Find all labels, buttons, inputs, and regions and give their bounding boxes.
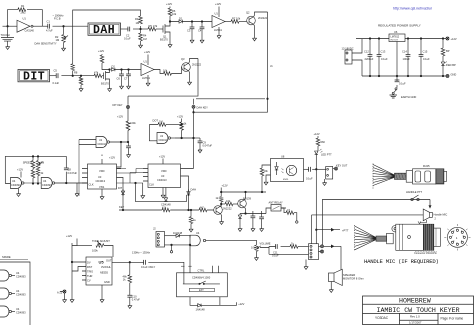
- svg-text:Handle MIC: Handle MIC: [434, 213, 448, 217]
- ground under pin: [76, 183, 78, 192]
- svg-text:DAH KEY: DAH KEY: [197, 106, 209, 110]
- svg-text:RJ45: RJ45: [423, 164, 430, 168]
- svg-text:1N4148: 1N4148: [173, 231, 183, 235]
- resistor pull-down: [190, 210, 192, 217]
- transistor Q5: [214, 206, 223, 215]
- svg-text:CLK: CLK: [149, 183, 154, 187]
- svg-text:OUT: OUT: [106, 259, 112, 263]
- svg-text:BS170: BS170: [101, 82, 109, 86]
- transistor Q3 mosfet: [104, 70, 110, 87]
- svg-text:KEY OUT: KEY OUT: [336, 164, 348, 168]
- svg-text:VOLUME: VOLUME: [260, 242, 271, 246]
- svg-text:R4: R4: [143, 34, 147, 38]
- svg-text:+12V: +12V: [66, 234, 72, 238]
- capacitor C5: [56, 73, 58, 78]
- resistor to speed line: [71, 64, 75, 71]
- svg-text:+12V: +12V: [215, 2, 221, 6]
- svg-text:130Hz ~ 135Hz: 130Hz ~ 135Hz: [132, 250, 151, 254]
- svg-text:THR: THR: [87, 274, 92, 278]
- gate U2a: [96, 137, 110, 148]
- svg-text:1M: 1M: [143, 37, 147, 41]
- svg-text:CTRL: CTRL: [198, 269, 205, 273]
- svg-text:1/17/2007: 1/17/2007: [409, 320, 422, 324]
- svg-text:100k: 100k: [130, 121, 136, 125]
- lower path: [269, 248, 309, 255]
- dashed cable edge: [354, 225, 356, 251]
- resistor R5 series: [148, 27, 156, 31]
- ground: [79, 87, 83, 92]
- svg-text:DIT: DIT: [118, 186, 123, 190]
- svg-text:BS170: BS170: [160, 38, 168, 42]
- output wire: [123, 262, 184, 273]
- zener: [239, 214, 241, 216]
- svg-text:10k: 10k: [264, 169, 269, 173]
- diode D2: [112, 68, 115, 71]
- capacitor DAH debounce: [199, 138, 201, 141]
- cable body: [376, 236, 387, 241]
- svg-text:REGULATED POWER SUPPLY: REGULATED POWER SUPPLY: [378, 24, 421, 28]
- svg-text:+12V: +12V: [159, 155, 165, 159]
- resistor down: [129, 262, 131, 264]
- wire from DIT box: [50, 75, 57, 77]
- svg-text:+12V: +12V: [238, 302, 244, 306]
- svg-text:C6: C6: [117, 77, 121, 81]
- svg-text:Rev 1.0: Rev 1.0: [410, 314, 420, 318]
- svg-text:R1: R1: [21, 4, 25, 8]
- svg-text:+12V: +12V: [222, 184, 228, 188]
- svg-text:0.1uF: 0.1uF: [124, 37, 131, 41]
- ground: [305, 260, 307, 265]
- svg-text:2200uF: 2200uF: [365, 57, 374, 61]
- switch HANDLE PTT: [411, 198, 413, 200]
- wire step to DIT key: [128, 59, 198, 105]
- svg-text:+12V: +12V: [314, 132, 320, 136]
- wire U2a inputs: [79, 140, 96, 145]
- svg-text:100k: 100k: [92, 249, 98, 253]
- wire output: [33, 25, 48, 27]
- CLK wire from U4 to U3b: [123, 173, 143, 184]
- knurled ring: [423, 224, 434, 250]
- svg-text:10k: 10k: [172, 12, 177, 16]
- diode DIT out: [122, 189, 124, 191]
- resistor DOT: [149, 125, 158, 141]
- svg-text:2M2: 2M2: [21, 11, 27, 15]
- svg-text:1M: 1M: [41, 161, 45, 165]
- jack terminals: [321, 245, 324, 248]
- transistor Q4: [182, 63, 191, 72]
- svg-text:A 12: A 12: [57, 291, 63, 295]
- wire: [182, 21, 212, 23]
- capacitor C2: [128, 27, 130, 32]
- svg-text:2N2222: 2N2222: [192, 63, 202, 67]
- resistor out: [281, 208, 286, 213]
- svg-text:R8: R8: [74, 71, 78, 75]
- ground: [6, 45, 10, 50]
- svg-text:C14: C14: [402, 50, 407, 54]
- svg-text:CLK: CLK: [89, 183, 94, 187]
- wiper wire: [260, 247, 276, 248]
- svg-text:LM741: LM741: [142, 76, 150, 80]
- capacitor: [275, 244, 277, 249]
- svg-text:Q2: Q2: [246, 11, 250, 15]
- svg-text:EARTH GND: EARTH GND: [401, 95, 416, 99]
- IC U3b CD4013: [148, 164, 181, 188]
- capacitor C4: [201, 22, 203, 28]
- svg-text:+12V: +12V: [109, 156, 115, 160]
- mic horn: [423, 209, 432, 221]
- svg-text:10k: 10k: [251, 246, 256, 250]
- svg-text:CD4093: CD4093: [16, 293, 26, 297]
- svg-text:1N4148: 1N4148: [196, 307, 206, 311]
- wire feedback loop: [8, 10, 43, 27]
- svg-text:GND: GND: [104, 280, 110, 284]
- svg-text:U1: U1: [144, 60, 148, 64]
- ground: [62, 46, 66, 51]
- svg-text:U8: U8: [281, 154, 285, 158]
- gate U2b: [157, 133, 171, 144]
- svg-text:BP: BP: [446, 49, 450, 53]
- transistor Q2: [247, 16, 256, 25]
- wire to speaker: [324, 246, 342, 269]
- feed wire long from top: [73, 10, 141, 76]
- nose: [434, 228, 441, 246]
- dotted detail under barrel: [415, 250, 437, 252]
- wire: [133, 28, 148, 30]
- resistor opto input: [260, 168, 264, 176]
- resistor: [290, 245, 298, 249]
- svg-text:Q3: Q3: [181, 57, 185, 61]
- svg-text:2N2222: 2N2222: [223, 206, 233, 210]
- svg-text:Page # or name: Page # or name: [441, 316, 464, 320]
- relay contact box: [271, 205, 281, 212]
- svg-text:0.1uF ONLY: 0.1uF ONLY: [141, 265, 155, 269]
- svg-text:VDD: VDD: [99, 169, 105, 173]
- svg-text:12-18VDC: 12-18VDC: [342, 47, 354, 51]
- svg-text:+12V: +12V: [177, 115, 183, 119]
- pins top: [213, 266, 219, 273]
- wire U3a to U3b: [117, 169, 144, 184]
- op-amp U2b: [141, 64, 154, 76]
- svg-text:100uF: 100uF: [403, 57, 411, 61]
- svg-text:VDD: VDD: [161, 169, 167, 173]
- plug body: [413, 169, 436, 184]
- speaker: [329, 273, 335, 282]
- svg-text:C12: C12: [364, 50, 369, 54]
- bottom rail: [362, 75, 446, 77]
- trimmer DAH sensitivity: [63, 26, 65, 34]
- diode 1N4148: [198, 304, 201, 307]
- +12V rail local: [221, 188, 266, 197]
- svg-text:C1: C1: [47, 20, 51, 24]
- wire loop: [5, 156, 66, 183]
- svg-text:LED PTT: LED PTT: [321, 153, 332, 157]
- svg-text:C8: C8: [68, 168, 72, 172]
- earth branch: [396, 76, 398, 81]
- svg-text:NE555: NE555: [100, 271, 108, 275]
- svg-text:2N2222: 2N2222: [258, 16, 268, 20]
- svg-text:DAH SENSITIVITY: DAH SENSITIVITY: [35, 41, 57, 45]
- svg-text:+12V: +12V: [117, 115, 123, 119]
- EXT box: [189, 288, 214, 291]
- op-amp U1b comparator: [212, 16, 225, 28]
- cap 3: [407, 39, 409, 55]
- resistor collector Q5: [219, 197, 223, 202]
- ground pin: [101, 285, 103, 298]
- pot VOLUME: [255, 245, 261, 251]
- svg-text:4.7uF: 4.7uF: [46, 29, 53, 33]
- svg-text:KEY: KEY: [119, 205, 124, 209]
- diode DAH out: [188, 190, 190, 192]
- svg-text:0.047uF: 0.047uF: [203, 144, 213, 148]
- input wires: [262, 165, 271, 168]
- wire pullup DIT: [127, 109, 129, 122]
- svg-text:560: 560: [321, 140, 326, 144]
- svg-text:CD4013: CD4013: [157, 178, 167, 182]
- ground: [168, 43, 172, 48]
- svg-text:HANDLE MIC (IF REQUIRED): HANDLE MIC (IF REQUIRED): [364, 258, 439, 265]
- ground rail: [70, 298, 74, 303]
- transistor Q1 mosfet: [163, 20, 170, 43]
- ferrule: [406, 171, 412, 183]
- terminal DIT KEY: [127, 106, 130, 109]
- contact block: [436, 169, 444, 184]
- svg-text:1M: 1M: [136, 21, 140, 25]
- svg-text:DV: DV: [87, 261, 91, 265]
- svg-text:U4: U4: [16, 271, 20, 275]
- +12V rail: [72, 239, 77, 294]
- label DAH: [88, 23, 121, 37]
- gate U4e: [0, 306, 9, 317]
- gate U4f: [190, 235, 200, 246]
- screw: [392, 226, 398, 232]
- svg-text:47k: 47k: [153, 24, 158, 28]
- svg-text:R7 10k: R7 10k: [232, 17, 241, 21]
- box SPARE: [0, 262, 30, 325]
- wire lower pin: [165, 244, 191, 245]
- bottom wires: [190, 297, 198, 306]
- wire from DAH box: [121, 28, 129, 30]
- wire long vertical to DAH key: [194, 12, 268, 112]
- svg-text:U4: U4: [16, 289, 20, 293]
- wire PTT loop: [322, 200, 430, 245]
- svg-text:0.1uF: 0.1uF: [381, 57, 388, 61]
- svg-text:http://www.qsl.net/va3iul: http://www.qsl.net/va3iul: [393, 7, 432, 11]
- svg-text:R3: R3: [135, 17, 139, 21]
- svg-text:DAH: DAH: [191, 188, 197, 192]
- svg-text:CD4093: CD4093: [16, 311, 26, 315]
- dashed cable edge: [372, 164, 374, 189]
- ferrule: [387, 233, 394, 244]
- resistor R3 1M: [139, 16, 143, 24]
- wire to DAH box: [53, 25, 89, 27]
- ground: [253, 36, 257, 41]
- svg-text:CD4093: CD4093: [16, 275, 26, 279]
- capacitor pair: [144, 260, 146, 265]
- capacitor C6: [121, 70, 123, 75]
- svg-text:D1: D1: [179, 17, 183, 21]
- IC U3a CD4013: [88, 164, 117, 189]
- wire horn to connector: [420, 220, 427, 223]
- optocoupler U8: [271, 159, 304, 182]
- svg-text:U3: U3: [161, 174, 165, 178]
- pot TONE ADJUST: [96, 241, 104, 247]
- terminal DAH KEY: [192, 105, 195, 108]
- ground: [18, 189, 20, 192]
- jack KEY OUT: [326, 167, 333, 180]
- svg-text:RST: RST: [87, 265, 93, 269]
- svg-text:HANDLE PTT: HANDLE PTT: [406, 190, 423, 194]
- svg-text:CV: CV: [87, 279, 91, 283]
- gate U4b: [41, 178, 55, 189]
- terminal A: [63, 290, 66, 293]
- svg-text:CD4011: CD4011: [159, 139, 168, 142]
- wire U5 out into box: [183, 273, 185, 284]
- wire up to U2a: [78, 140, 80, 197]
- output capacitor: [304, 168, 310, 170]
- gate U4a: [11, 178, 25, 189]
- svg-text:0.1uF: 0.1uF: [53, 81, 60, 85]
- svg-text:U4: U4: [16, 307, 20, 311]
- svg-text:10k: 10k: [163, 69, 168, 73]
- svg-text:SPEED: SPEED: [23, 161, 32, 165]
- svg-text:LED BP: LED BP: [447, 63, 456, 67]
- svg-text:LM7812: LM7812: [391, 36, 400, 39]
- regulator U6: [356, 38, 446, 40]
- +12V pullup resistor: [169, 7, 171, 9]
- svg-text:1M: 1M: [159, 120, 163, 124]
- wire +PTT stub: [316, 229, 340, 231]
- KEY bus wire: [119, 209, 214, 211]
- resistor R6: [231, 20, 239, 24]
- +12V stub: [317, 136, 319, 138]
- +12V pullup: [101, 54, 103, 55]
- ground: [108, 87, 112, 92]
- wire MIC loop: [312, 215, 423, 244]
- svg-text:4N25: 4N25: [283, 179, 289, 181]
- capacitor C3: [191, 22, 193, 28]
- fan wires: [355, 226, 376, 250]
- svg-text:DAH: DAH: [93, 24, 115, 37]
- svg-text:CD4093: CD4093: [11, 183, 21, 187]
- svg-text:YO3DAC: YO3DAC: [375, 316, 389, 320]
- wire gate output to volume: [206, 240, 257, 245]
- svg-text:C3: C3: [187, 29, 191, 33]
- wire pullup DAH: [175, 109, 194, 169]
- svg-text:P.C.B: P.C.B: [54, 17, 61, 21]
- svg-text:C15: C15: [423, 50, 428, 54]
- resistor in bus 2: [199, 208, 207, 212]
- diode 1N4148: [165, 235, 177, 237]
- diode D1: [179, 20, 182, 23]
- ground stub: [142, 183, 144, 193]
- svg-text:U5: U5: [99, 260, 105, 265]
- capacitor C1: [48, 24, 50, 29]
- svg-text:SPARE: SPARE: [2, 255, 11, 259]
- box CD4066: [177, 273, 228, 297]
- barrel: [396, 224, 424, 250]
- svg-text:0.1uF: 0.1uF: [399, 82, 406, 86]
- svg-text:0.1uF: 0.1uF: [306, 177, 313, 181]
- diode mid: [165, 188, 167, 198]
- resistor R1 feedback: [18, 8, 26, 12]
- fan wires: [373, 165, 395, 186]
- svg-text:0.1uF: 0.1uF: [272, 254, 279, 258]
- tip: [444, 171, 447, 181]
- label DIT: [18, 70, 50, 84]
- svg-text:U1: U1: [23, 17, 27, 21]
- resistor 560: [316, 138, 320, 146]
- svg-text:0.1uF: 0.1uF: [423, 57, 430, 61]
- svg-text:+12V: +12V: [144, 50, 150, 54]
- capacitor C10: [127, 295, 132, 297]
- cable body: [395, 173, 407, 179]
- svg-text:CA3140: CA3140: [25, 29, 35, 33]
- svg-text:0.047uF: 0.047uF: [68, 171, 78, 175]
- switch wire inside: [183, 281, 220, 284]
- svg-text:R5: R5: [149, 24, 153, 28]
- svg-text:0.47uF: 0.47uF: [132, 298, 140, 302]
- svg-text:U4: U4: [12, 179, 16, 183]
- svg-text:3V3OHL: 3V3OHL: [101, 265, 112, 269]
- LED PTT: [315, 151, 318, 154]
- svg-text:+12V: +12V: [166, 2, 172, 6]
- cap 4: [420, 39, 422, 55]
- svg-text:4k7: 4k7: [200, 206, 205, 210]
- svg-text:DIT: DIT: [23, 71, 45, 84]
- svg-text:U1: U1: [215, 12, 219, 16]
- transistor Q6 npn: [238, 199, 247, 208]
- wire line A: [136, 183, 187, 202]
- GND terminal: [446, 75, 449, 78]
- resistor: [164, 72, 172, 76]
- svg-text:C5: C5: [54, 69, 58, 73]
- svg-text:CD4066/4.1000: CD4066/4.1000: [192, 275, 211, 279]
- svg-text:1M: 1M: [79, 78, 83, 82]
- svg-text:LM741: LM741: [214, 28, 222, 32]
- svg-text:BD139: BD139: [243, 197, 251, 201]
- svg-text:C4: C4: [198, 29, 202, 33]
- svg-text:EXT: EXT: [199, 289, 204, 292]
- svg-text:CD4093: CD4093: [42, 183, 52, 187]
- IC U5 NE555: [86, 257, 112, 285]
- svg-text:GND: GND: [451, 73, 457, 77]
- op-amp U1: [17, 20, 30, 32]
- ground: [171, 245, 173, 251]
- svg-text:IAMBIC CW TOUCH KEYER: IAMBIC CW TOUCH KEYER: [377, 307, 460, 314]
- wire LED line down to jack: [315, 169, 317, 243]
- svg-text:U6: U6: [394, 30, 398, 34]
- LED branch: [442, 39, 444, 49]
- svg-text:41k: 41k: [162, 206, 167, 210]
- connector box J3: [309, 244, 319, 260]
- resistor Q5-Q6: [221, 203, 225, 205]
- svg-text:Connector CW-M-Pin: Connector CW-M-Pin: [414, 252, 437, 255]
- svg-text:TONE ADJUST: TONE ADJUST: [92, 239, 110, 243]
- svg-text:+PTT: +PTT: [342, 229, 349, 233]
- pot SPEED: [33, 156, 38, 160]
- svg-text:C13: C13: [381, 50, 386, 54]
- svg-text:DOT: DOT: [153, 119, 159, 123]
- connector J2: [156, 232, 165, 248]
- svg-text:+12V: +12V: [451, 37, 457, 41]
- pinout circle: [447, 227, 467, 247]
- touch pad DAH: [1, 26, 14, 44]
- +12V terminal: [446, 37, 449, 40]
- svg-text:10k: 10k: [226, 199, 231, 203]
- resistor R4 down: [140, 29, 142, 33]
- svg-text:SPEAKER: SPEAKER: [343, 273, 355, 277]
- resistor pullup at junction: [80, 76, 82, 77]
